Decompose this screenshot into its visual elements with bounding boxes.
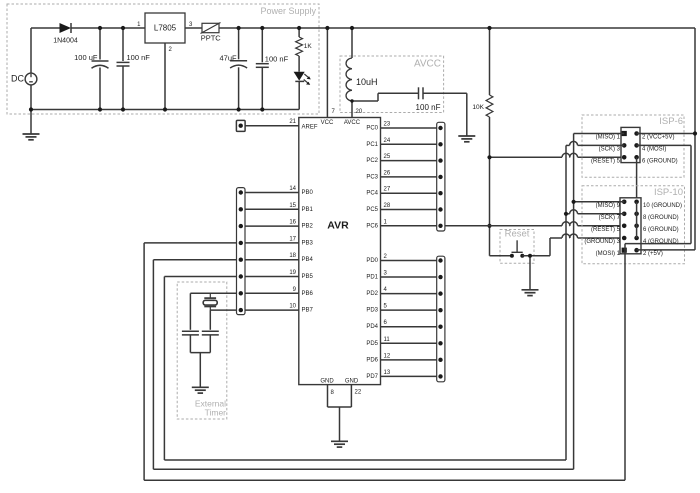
wire PC6 reset row (445, 222, 624, 226)
pushbutton SW1 (490, 240, 551, 257)
svg-text:Power Supply: Power Supply (260, 6, 316, 16)
wire button to ISP10 gnd (550, 234, 624, 256)
wire MISO bottom (153, 468, 573, 470)
dashed box External Timer (177, 282, 227, 419)
wire PB7 to crystal (210, 309, 236, 311)
wire MOSI down (624, 250, 626, 480)
svg-text:PB1: PB1 (302, 207, 314, 213)
header J5 PD box (437, 256, 445, 382)
svg-text:PC5: PC5 (366, 207, 378, 213)
svg-text:100 nF: 100 nF (265, 55, 289, 64)
svg-text:AVCC: AVCC (344, 120, 361, 126)
J6 pin3 SCK (599, 143, 627, 152)
svg-text:4 (MOSI): 4 (MOSI) (642, 146, 666, 152)
wire SCK ISP6 (566, 141, 624, 460)
svg-text:(RESET) 5: (RESET) 5 (591, 227, 621, 233)
svg-text:PD3: PD3 (366, 308, 378, 314)
svg-text:10K: 10K (472, 104, 484, 111)
svg-text:PB6: PB6 (302, 291, 314, 297)
svg-text:23: 23 (384, 122, 391, 128)
svg-text:(SCK) 3: (SCK) 3 (599, 146, 621, 152)
dashed box Reset (500, 229, 534, 264)
svg-text:16: 16 (289, 220, 296, 226)
svg-text:PD2: PD2 (366, 291, 378, 297)
wire VCC ISP6 (637, 131, 698, 135)
svg-text:PC3: PC3 (366, 174, 378, 180)
wire L7805 pin2 to gnd rail (164, 43, 166, 110)
svg-text:Timer: Timer (205, 408, 227, 418)
resistor R1 1K (296, 28, 313, 72)
regulator U2 L7805 (137, 13, 193, 53)
svg-text:2 (+5V): 2 (+5V) (643, 251, 663, 257)
wire MISO ISP6 (574, 134, 625, 470)
svg-text:PC4: PC4 (366, 191, 378, 197)
svg-text:10uH: 10uH (356, 77, 378, 87)
svg-text:GND: GND (320, 379, 334, 385)
wire MOSI ISP6 right (637, 145, 691, 243)
crystal X1 (203, 293, 217, 310)
J6 pin1 MISO (596, 131, 627, 141)
header J4 pins (438, 126, 442, 228)
svg-text:100 nF: 100 nF (127, 53, 151, 62)
wire SCK left (164, 277, 236, 461)
svg-text:(MOSI) 1: (MOSI) 1 (596, 251, 621, 257)
header J5 pins (438, 258, 442, 378)
wire MISO ISP10 (572, 200, 625, 204)
svg-text:13: 13 (384, 370, 391, 376)
J6 pin6 GROUND (634, 155, 677, 164)
svg-text:PC6: PC6 (366, 223, 378, 229)
svg-text:VCC: VCC (321, 120, 334, 126)
junction dot inductor (350, 99, 353, 102)
svg-text:10 (GROUND): 10 (GROUND) (643, 203, 682, 209)
ground PSU (23, 134, 40, 140)
svg-text:PPTC: PPTC (201, 34, 222, 43)
svg-text:GND: GND (345, 379, 359, 385)
wire GND pins (328, 385, 362, 441)
J6 pin5 RESET (591, 155, 627, 164)
svg-text:12: 12 (384, 353, 391, 359)
svg-text:2 (VCC+5V): 2 (VCC+5V) (642, 135, 675, 141)
wire 5V to pin2 (637, 249, 695, 251)
DC source J1 (11, 73, 37, 85)
dashed box Power Supply (7, 4, 319, 114)
svg-text:10: 10 (289, 304, 296, 310)
svg-text:AVCC: AVCC (414, 59, 441, 70)
dashed box AVCC (340, 56, 444, 113)
wire gnd right column (636, 202, 638, 238)
wire DC bottom (30, 85, 32, 134)
wire L7805 to PPTC (185, 27, 202, 29)
junction dots top rail (325, 26, 354, 30)
resistor R2 10K (472, 28, 492, 157)
svg-text:AVR: AVR (327, 220, 349, 232)
svg-text:AREF: AREF (302, 124, 318, 130)
header J3 PB box (237, 188, 246, 315)
svg-text:27: 27 (384, 187, 391, 193)
wire inductor to cap (352, 93, 418, 101)
wire PPTC to rail (219, 27, 695, 29)
svg-text:Reset: Reset (505, 229, 530, 240)
dashed box ISP-10 (582, 186, 685, 264)
svg-text:PC2: PC2 (366, 158, 378, 164)
wire MOSI left (144, 243, 236, 480)
svg-text:PC0: PC0 (366, 126, 378, 132)
svg-text:DC: DC (11, 74, 24, 84)
svg-text:PD7: PD7 (366, 374, 378, 380)
fuse F1 PPTC (201, 23, 222, 43)
wire AVCC pin (351, 101, 353, 118)
junction dots reset (487, 26, 491, 228)
capacitor C1 100uF (74, 28, 108, 110)
svg-text:PB5: PB5 (302, 274, 314, 280)
svg-text:24: 24 (384, 138, 391, 144)
wire PB6 to cap (190, 293, 236, 330)
J6 pin2 VCC (634, 131, 674, 140)
svg-text:100 nF: 100 nF (416, 103, 441, 112)
dashed box ISP-6 (582, 115, 684, 177)
svg-text:PD4: PD4 (366, 324, 378, 330)
wire VCC pin (326, 28, 328, 118)
svg-text:PB4: PB4 (302, 257, 314, 263)
wires PB header to chip (245, 193, 299, 311)
svg-text:(RESET) 5: (RESET) 5 (591, 158, 621, 164)
svg-text:11: 11 (384, 337, 391, 343)
capacitor C4 100nF (256, 28, 289, 110)
svg-text:(MISO) 9: (MISO) 9 (596, 203, 621, 209)
svg-text:(MISO) 1: (MISO) 1 (596, 135, 621, 141)
svg-text:PD6: PD6 (366, 357, 378, 363)
svg-text:47uF: 47uF (219, 54, 237, 63)
diode D1 1N4004 (53, 23, 78, 45)
wire top rail right (694, 28, 696, 250)
svg-text:1N4004: 1N4004 (53, 38, 78, 45)
svg-text:26: 26 (384, 170, 391, 176)
inductor L1 10uH (346, 28, 377, 101)
wire MOSI bottom (144, 479, 625, 481)
svg-text:8 (GROUND): 8 (GROUND) (643, 215, 679, 221)
header J2 AREF (236, 120, 298, 131)
svg-text:PD0: PD0 (366, 258, 378, 264)
svg-text:PC1: PC1 (366, 142, 378, 148)
svg-text:PB7: PB7 (302, 308, 314, 314)
svg-text:ISP-6: ISP-6 (659, 116, 683, 127)
capacitor C6 (182, 331, 199, 352)
capacitor C3 47uF (219, 28, 247, 110)
ground reset (522, 290, 539, 296)
svg-text:17: 17 (289, 236, 296, 242)
capacitor C2 100nF (117, 28, 151, 110)
connector J6 ISP-6 box (621, 127, 640, 162)
wires PD chip to header (381, 261, 437, 377)
svg-text:PB2: PB2 (302, 224, 314, 230)
capacitor C7 (202, 310, 219, 353)
ground AVCC (458, 136, 475, 142)
capacitor C5 100nF AVCC (416, 87, 441, 112)
wires PC chip to header (381, 128, 437, 226)
connector J7 ISP-10 box (620, 198, 641, 254)
wire GND ISP6 down (636, 157, 638, 238)
wire caps common (190, 353, 210, 387)
connector J7 pins (584, 200, 682, 258)
svg-text:18: 18 (289, 253, 296, 259)
wire RESET vertical (489, 157, 491, 256)
svg-text:14: 14 (289, 186, 296, 192)
svg-text:PD1: PD1 (366, 275, 378, 281)
wire MOSI to pin1 (625, 244, 691, 251)
ground timer (192, 387, 209, 393)
wire button gnd stub (528, 254, 532, 289)
svg-text:ISP-10: ISP-10 (654, 187, 683, 198)
wire SCK ISP10 (564, 210, 624, 216)
ground AVR (331, 441, 348, 447)
wire SCK bottom (164, 459, 566, 461)
svg-text:22: 22 (355, 390, 362, 396)
wire MISO left (153, 260, 236, 470)
svg-text:15: 15 (289, 203, 296, 209)
svg-text:28: 28 (384, 203, 391, 209)
svg-text:(GROUND) 3: (GROUND) 3 (584, 239, 620, 245)
LED D2 (294, 72, 311, 110)
wire DC to top rail (31, 28, 60, 73)
J6 pin4 MOSI (634, 143, 666, 152)
svg-text:6 (GROUND): 6 (GROUND) (643, 227, 679, 233)
gnd rail PSU (31, 109, 299, 111)
svg-text:1K: 1K (304, 43, 313, 50)
svg-text:PB0: PB0 (302, 190, 314, 196)
svg-text:PB3: PB3 (302, 240, 314, 246)
wire cap to ground (423, 93, 467, 136)
svg-text:25: 25 (384, 154, 391, 160)
svg-text:PD5: PD5 (366, 341, 378, 347)
wire diode to L7805 (71, 27, 146, 29)
svg-text:21: 21 (289, 119, 296, 125)
svg-text:20: 20 (356, 109, 363, 115)
svg-text:6 (GROUND): 6 (GROUND) (642, 158, 678, 164)
junction dots PSU (29, 26, 301, 112)
svg-text:(SCK) 7: (SCK) 7 (599, 215, 621, 221)
IC U1 AVR (289, 109, 391, 385)
svg-text:100 uF: 100 uF (74, 53, 98, 62)
svg-text:L7805: L7805 (154, 24, 177, 33)
svg-text:19: 19 (289, 270, 296, 276)
header J3 pins (239, 190, 243, 312)
header J4 PC box (437, 122, 445, 231)
wire RESET to ISP6 (490, 153, 625, 157)
